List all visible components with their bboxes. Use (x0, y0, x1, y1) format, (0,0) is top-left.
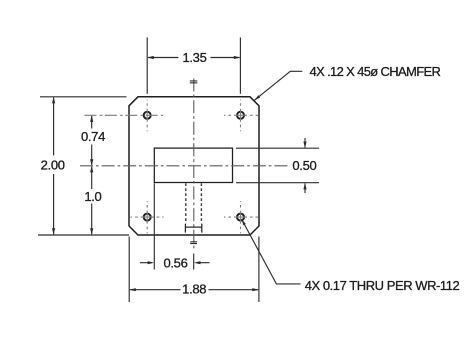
svg-text:1.35: 1.35 (182, 50, 206, 65)
svg-text:0.56: 0.56 (163, 256, 187, 271)
svg-text:1.0: 1.0 (84, 189, 101, 204)
svg-text:2.00: 2.00 (41, 158, 65, 173)
svg-text:0.74: 0.74 (81, 129, 105, 144)
svg-text:0.50: 0.50 (292, 158, 316, 173)
svg-text:4X .12 X 45ø CHAMFER: 4X .12 X 45ø CHAMFER (310, 64, 441, 79)
svg-text:4X 0.17 THRU PER WR-112: 4X 0.17 THRU PER WR-112 (305, 278, 460, 293)
svg-text:1.88: 1.88 (182, 282, 206, 297)
